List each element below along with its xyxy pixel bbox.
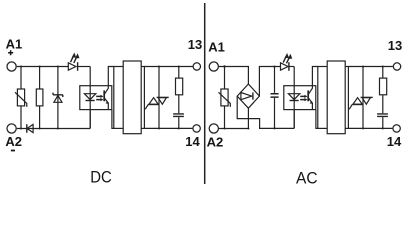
- svg-text:13: 13: [388, 38, 402, 53]
- svg-text:A1: A1: [6, 37, 23, 52]
- svg-text:13: 13: [188, 37, 202, 52]
- svg-text:AC: AC: [296, 169, 318, 187]
- svg-text:14: 14: [185, 134, 200, 149]
- svg-text:DC: DC: [90, 168, 112, 186]
- svg-text:A2: A2: [5, 134, 22, 149]
- svg-text:A2: A2: [207, 134, 224, 149]
- svg-text:A1: A1: [208, 40, 225, 55]
- svg-text:14: 14: [387, 134, 402, 149]
